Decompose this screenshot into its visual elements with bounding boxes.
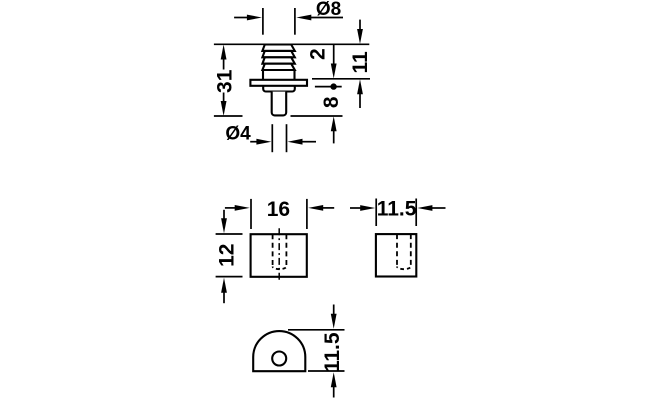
svg-text:Ø8: Ø8 xyxy=(316,0,341,20)
dimension 11 bottom outside arrow xyxy=(357,79,363,108)
block 11.5 outline xyxy=(376,234,416,276)
extension line 11.5 right xyxy=(415,199,417,227)
extension line diameter4 left xyxy=(271,124,273,152)
extension line pin bottom left xyxy=(214,115,243,117)
hidden hole dashed lines in 16 block xyxy=(273,234,287,269)
dimension diameter4 right arrow xyxy=(288,139,317,145)
svg-text:8: 8 xyxy=(320,96,343,108)
centerline dash-dot in 16 block xyxy=(278,228,280,282)
dimension 16 left arrow xyxy=(225,205,250,211)
extension line diameter8 right xyxy=(294,8,296,35)
dowel neck below flange xyxy=(263,86,295,92)
extension line 12 bottom xyxy=(216,276,243,278)
dome outline xyxy=(253,331,305,371)
dimension 11.5 bottom bottom outside arrow xyxy=(331,372,337,397)
dowel ribbed section rib3 xyxy=(262,57,294,63)
block 16x12 outline xyxy=(251,234,307,277)
dowel ribbed section rib2 xyxy=(262,51,294,57)
dowel ribbed section rib1 xyxy=(262,45,294,51)
extension line 12 top xyxy=(216,233,243,235)
dowel flange xyxy=(250,80,307,86)
dimension 11.5 left arrow xyxy=(350,205,375,211)
extension line diameter8 left xyxy=(262,8,264,35)
dimension 2 down arrow xyxy=(331,45,337,79)
dimension 11.5 right arrow xyxy=(417,205,445,211)
dowel pin xyxy=(272,92,287,116)
svg-text:Ø4: Ø4 xyxy=(225,124,251,145)
extension line 11.5 left xyxy=(375,199,377,227)
extension line 16 left xyxy=(250,199,252,229)
svg-text:11.5: 11.5 xyxy=(377,198,417,221)
dimension 16 right arrow xyxy=(308,205,334,211)
svg-text:2: 2 xyxy=(307,48,330,60)
svg-text:16: 16 xyxy=(267,198,290,221)
extension line diameter4 right xyxy=(286,124,288,152)
dimension 12 bottom outside arrow xyxy=(221,278,227,304)
dowel body below ribs xyxy=(263,70,295,80)
extension line flange bottom right xyxy=(315,86,342,88)
dimension 12 top outside arrow xyxy=(221,210,227,233)
extension line 16 right xyxy=(306,199,308,229)
svg-text:31: 31 xyxy=(214,69,237,93)
extension line dome bottom xyxy=(308,370,345,372)
dimension 8 bottom outside arrow xyxy=(331,116,337,143)
dimension diameter4 left arrow xyxy=(250,139,271,145)
extension line pin bottom right xyxy=(291,115,343,117)
svg-text:11: 11 xyxy=(349,51,372,74)
dimension 11 top outside arrow xyxy=(357,20,363,44)
dome hole circle xyxy=(272,352,286,366)
extension line flange top right xyxy=(312,78,370,80)
dimension diameter8 right arrow with leader xyxy=(296,15,343,21)
hidden hole dashed lines in 11.5 block xyxy=(397,234,411,269)
dimension 11.5 bottom top outside arrow xyxy=(331,305,337,329)
extension line top of dowel (y=44.3) xyxy=(214,43,369,45)
svg-text:11.5: 11.5 xyxy=(321,332,344,372)
dimension diameter8 left arrow xyxy=(234,15,262,21)
extension line dome top xyxy=(288,329,345,331)
svg-text:12: 12 xyxy=(215,244,238,267)
dowel ribbed section rib4 xyxy=(262,64,294,70)
dimension 8 dot marker xyxy=(330,83,336,89)
dimension 31 line with inside arrows xyxy=(221,45,227,117)
